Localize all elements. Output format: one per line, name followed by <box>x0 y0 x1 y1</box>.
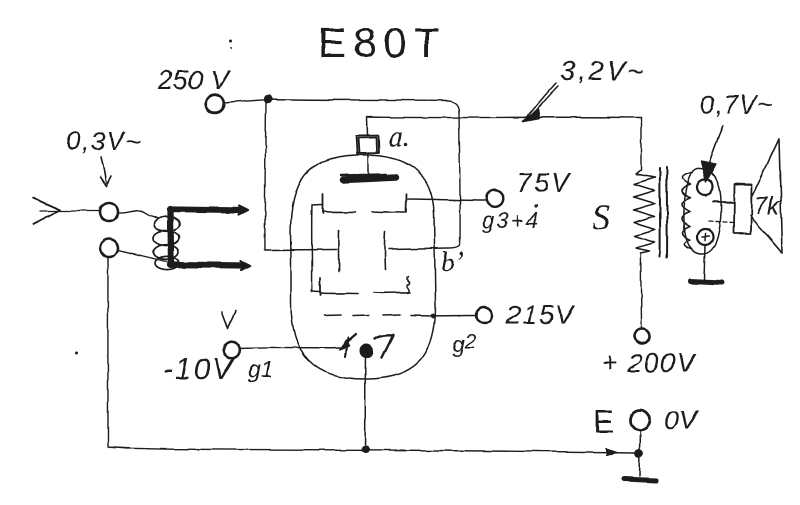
grid level1 right bar <box>405 194 408 212</box>
arrow 0,7V <box>709 126 723 163</box>
tube envelope <box>291 155 436 379</box>
input terminal lower <box>100 239 118 257</box>
svg-text:215V: 215V <box>505 300 577 330</box>
svg-text:g2: g2 <box>452 331 476 357</box>
input coil winding <box>153 217 180 270</box>
anode top cap square <box>356 136 379 154</box>
svg-text:S: S <box>592 197 610 237</box>
svg-text:0,3V~: 0,3V~ <box>66 126 142 156</box>
grid bar right (g level 2) <box>384 232 387 270</box>
stray ink dots <box>230 40 233 43</box>
input arrow <box>33 198 60 224</box>
grid level1 right dash <box>372 211 404 214</box>
wire top rail to box corner <box>268 99 459 112</box>
wire bottom rail <box>108 447 637 453</box>
svg-text:+ 200V: + 200V <box>602 348 697 378</box>
junction dot bottom right <box>635 449 644 458</box>
wire E terminal to ground <box>639 430 640 476</box>
junction g2 envelope <box>431 314 436 319</box>
svg-text:g3+4: g3+4 <box>482 208 540 233</box>
svg-text:3,2V~: 3,2V~ <box>560 55 646 86</box>
junction dot bottom wire <box>361 445 369 453</box>
grid bar left (g level 2) <box>338 231 340 271</box>
speaker body oval <box>684 168 721 254</box>
arrow 3,2V <box>528 83 558 117</box>
terminal +200V <box>635 329 650 344</box>
grid level1 left stub <box>312 204 322 207</box>
grid g2 dashed line <box>324 314 400 317</box>
svg-text:E: E <box>593 404 614 440</box>
grid level1 left bar <box>322 194 324 214</box>
wire upper terminal to coil <box>118 211 157 218</box>
svg-text:75V: 75V <box>516 167 572 198</box>
grid level3 left dash <box>321 292 358 295</box>
terminal 250V <box>206 94 225 113</box>
junction dot top rail <box>264 95 272 103</box>
svg-text:a.: a. <box>388 120 411 153</box>
cathode lead down <box>364 356 367 447</box>
svg-text:-10V: -10V <box>163 353 235 386</box>
arrowhead on bottom rail <box>607 449 618 456</box>
svg-text:7k: 7k <box>754 193 781 220</box>
checkmark above g1 terminal <box>222 311 236 328</box>
grid g3+4 internal rod (long vertical) <box>311 205 313 290</box>
resistor 7k box <box>734 184 752 234</box>
svg-text:0,7V~: 0,7V~ <box>700 90 774 120</box>
cathode dot <box>359 344 373 358</box>
grid level3 right dash <box>374 291 410 293</box>
wire box left edge <box>265 99 268 250</box>
grid level3 left bar <box>320 278 322 295</box>
svg-text:b’: b’ <box>441 247 464 278</box>
grid level3 left hook <box>311 289 320 292</box>
transformer secondary winding <box>682 172 692 249</box>
dashed link bottom terminal to resistor <box>709 221 733 223</box>
terminal 215V <box>476 308 492 324</box>
wire anode to transformer <box>367 116 641 119</box>
arrow input label <box>101 157 106 183</box>
wire g2 to terminal <box>411 315 476 318</box>
svg-text:0V: 0V <box>664 405 700 435</box>
wire transformer primary top lead <box>640 118 642 171</box>
wire lower terminal to coil <box>118 250 168 262</box>
svg-text:E80T: E80T <box>318 19 446 66</box>
input terminal upper <box>100 203 118 221</box>
wire box bottom left segment <box>265 249 337 252</box>
anode plate (thick bar) <box>343 178 396 181</box>
wire g3+4 to terminal <box>406 199 487 201</box>
terminal g1 <box>223 341 240 358</box>
speaker terminal bottom <box>697 229 713 245</box>
grid level3 right squiggle bar <box>407 276 409 293</box>
grid level1 left dash <box>323 211 356 214</box>
speaker ground bar <box>690 282 722 284</box>
speaker cone <box>750 139 782 253</box>
wire box right edge <box>459 112 460 243</box>
transformer core left bar (thick) <box>167 209 174 265</box>
ground bar bottom right <box>624 479 656 481</box>
cathode mark left <box>342 334 356 356</box>
wire input to upper terminal <box>40 210 99 212</box>
wire 250V terminal to junction <box>225 99 266 102</box>
title E80T <box>318 19 446 66</box>
wire primary bottom lead <box>640 253 643 328</box>
wire lower terminal down <box>107 258 109 446</box>
cathode mark 7 <box>375 335 393 358</box>
transformer core lines <box>660 167 667 257</box>
transformer core bottom bar (thick) <box>170 265 244 266</box>
terminal E 0V <box>630 410 650 430</box>
transformer primary winding (zigzag) <box>634 170 655 253</box>
svg-text:250 V: 250 V <box>157 65 232 95</box>
anode stem <box>367 117 368 175</box>
speaker terminal top <box>697 179 713 195</box>
wire box bottom right segment <box>389 243 460 249</box>
svg-text:g1: g1 <box>248 356 274 382</box>
wire speaker to resistor <box>713 202 733 203</box>
terminal 75V <box>487 190 504 207</box>
wire g1 to cathode <box>240 346 340 349</box>
speaker ground lead <box>704 245 705 280</box>
transformer core top bar (thick) <box>170 210 242 211</box>
